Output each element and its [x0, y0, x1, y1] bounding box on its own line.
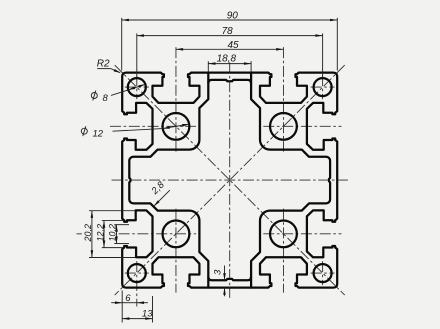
- dimension 45 (core bore pitch): [176, 48, 284, 50]
- svg-text:20,2: 20,2: [83, 224, 93, 243]
- bore centrelines: [175, 47, 177, 152]
- profile outline: top-left quadrant master: [122, 73, 230, 181]
- svg-text:R2: R2: [97, 59, 110, 70]
- dimension 10,2 (slot opening at nubs): [114, 224, 129, 226]
- bottom-left quadrant (mirror): [122, 180, 230, 288]
- dimension 18,8 (groove width): [207, 61, 209, 71]
- groove floor membrane (top groove, left half, with centre notch): [208, 73, 229, 84]
- dimension 12,2 (slot mouth width): [102, 220, 124, 222]
- top-right quadrant (mirror): [230, 73, 338, 181]
- dimension 20,2 (slot pocket width): [89, 210, 135, 212]
- svg-text:3: 3: [213, 269, 224, 275]
- leader and diameter 12 (core bore): [113, 129, 163, 132]
- diagonal centreline TR-BL: [115, 65, 345, 295]
- leader 2,8 (web channel): [154, 190, 169, 205]
- svg-text:8: 8: [103, 93, 109, 104]
- dimension 78 (corner hole pitch): [136, 33, 138, 77]
- leader R2 (corner radius): [97, 68, 110, 70]
- dimension 3 (groove floor membrane): [224, 266, 226, 281]
- vertical centreline: [229, 62, 231, 298]
- svg-text:13: 13: [142, 308, 153, 319]
- core-bore circle (diam 12) top-left quadrant: [163, 113, 190, 140]
- diagonal centreline TL-BR: [115, 65, 345, 295]
- svg-text:6: 6: [125, 293, 131, 304]
- svg-text:12: 12: [93, 128, 104, 139]
- svg-text:10,2: 10,2: [107, 224, 117, 242]
- svg-text:45: 45: [227, 40, 239, 51]
- svg-text:12,2: 12,2: [96, 224, 106, 242]
- corner screw hole (diam 8) top-left: [128, 78, 146, 96]
- leader and diameter 8 (corner hole): [111, 90, 128, 96]
- horizontal centreline: [112, 179, 348, 181]
- svg-text:18,8: 18,8: [217, 54, 237, 65]
- bottom-right quadrant (mirror): [230, 180, 338, 288]
- corner hole centrelines: [125, 86, 149, 88]
- svg-text:78: 78: [222, 26, 234, 37]
- svg-text:90: 90: [227, 10, 239, 21]
- profile rim: corner, faces, T-slot pockets, groove neck, chamber walls (top-left quadrant): [122, 73, 208, 181]
- dimension 13 (pocket floor depth): [121, 307, 123, 323]
- dimension 6 (corner hole offset): [121, 291, 123, 307]
- dimension 90 (overall width): [121, 18, 123, 71]
